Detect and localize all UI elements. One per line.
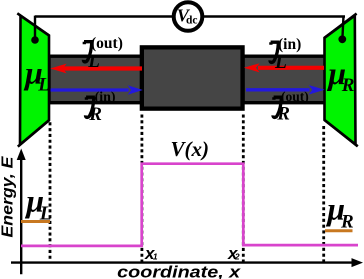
- svg-text:(out): (out): [91, 35, 123, 52]
- svg-text:L: L: [37, 75, 50, 96]
- svg-text:L: L: [87, 51, 100, 72]
- svg-text:(in): (in): [95, 90, 116, 105]
- svg-text:L: L: [39, 203, 52, 225]
- svg-text:R: R: [88, 104, 102, 125]
- svg-text:2: 2: [234, 252, 240, 262]
- svg-text:R: R: [340, 212, 354, 233]
- svg-text:Energy, E: Energy, E: [0, 156, 16, 238]
- svg-text:R: R: [276, 104, 290, 125]
- svg-text:coordinate, x: coordinate, x: [117, 262, 242, 279]
- svg-text:dc: dc: [186, 15, 198, 27]
- svg-text:R: R: [341, 75, 355, 96]
- svg-text:V(x): V(x): [171, 137, 210, 161]
- svg-text:1: 1: [153, 252, 158, 262]
- svg-text:(out): (out): [281, 89, 309, 104]
- svg-text:L: L: [274, 52, 287, 73]
- svg-text:(in): (in): [278, 36, 301, 53]
